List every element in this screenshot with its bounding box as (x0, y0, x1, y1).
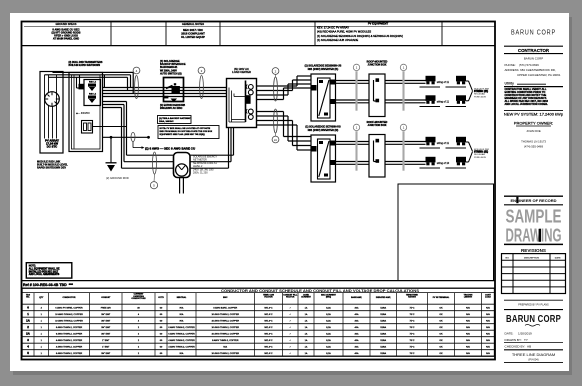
meter tag (150, 152, 157, 189)
svg-text:EGC: EGC (223, 297, 228, 299)
wire array feeder top (45, 72, 134, 93)
svg-text:10 AWG THWN-2, COPPER: 10 AWG THWN-2, COPPER (211, 332, 239, 335)
note box small (158, 116, 192, 124)
wire bundle A (103, 88, 227, 97)
wire dc strings inverter1 (336, 81, 426, 103)
svg-text:PURE 400W: PURE 400W (474, 96, 486, 98)
PV array enclosure (40, 72, 63, 154)
label string group 2 (474, 149, 490, 159)
note box left (26, 263, 72, 278)
load center panel (227, 79, 257, 128)
terminal rsd input (79, 84, 85, 90)
svg-text:FACTOR: FACTOR (264, 296, 273, 299)
svg-text:AUTO SWITCH (S): AUTO SWITCH (S) (160, 73, 182, 76)
wire rsd input (77, 75, 80, 88)
svg-text:52/8A: 52/8A (380, 319, 386, 322)
svg-text:N/A: N/A (486, 345, 490, 348)
svg-text:string of 11: string of 11 (437, 101, 450, 104)
conduit tag 4 (133, 67, 140, 98)
combiner enclosure (69, 73, 103, 152)
wire gec label leader (133, 142, 145, 149)
svg-text:OK: OK (439, 340, 443, 342)
svg-text:ALL EQUIPMENT SHALL BE: ALL EQUIPMENT SHALL BE (29, 268, 60, 271)
svg-text:DATE: DATE (555, 256, 561, 259)
svg-text:REC400AA: REC400AA (474, 93, 485, 96)
svg-text:3/4" EMT: 3/4" EMT (101, 333, 111, 335)
svg-text:W/1.0°C: W/1.0°C (264, 340, 273, 342)
svg-text:DRAWING: DRAWING (506, 226, 562, 246)
svg-text:OK: OK (439, 353, 443, 355)
svg-text:40A: 40A (355, 332, 359, 335)
wire array verticals (45, 75, 57, 139)
ground (106, 163, 117, 172)
svg-text:INSTALLED PER NEC 2017: INSTALLED PER NEC 2017 (29, 270, 59, 273)
svg-text:40A: 40A (355, 326, 359, 329)
svg-text:52/8A: 52/8A (380, 313, 386, 316)
conduit riser 1C (400, 124, 406, 170)
junction box J1 (369, 74, 385, 117)
svg-text:GROUND SPECS: GROUND SPECS (55, 22, 76, 26)
svg-text:Ref # 100-RES-03-4B TBD ***: Ref # 100-RES-03-4B TBD *** (23, 283, 74, 287)
svg-text:N/A: N/A (486, 313, 490, 316)
disconnect S1 (164, 78, 184, 103)
inverter U2 (311, 135, 337, 182)
svg-text:8 AWG THWN-2, COPPER: 8 AWG THWN-2, COPPER (212, 339, 239, 342)
svg-text:N/A: N/A (466, 345, 470, 348)
svg-text:✓: ✓ (289, 345, 291, 348)
PV array symbol (45, 92, 60, 107)
svg-text:W/1.0°C: W/1.0°C (264, 307, 273, 309)
svg-text:NOTE: PV BKR SHALL BE LOCATED: NOTE: PV BKR SHALL BE LOCATED AT OPPOSIT… (160, 127, 211, 130)
svg-text:8,2A: 8,2A (326, 326, 331, 329)
conduit riser 1 (353, 64, 359, 110)
svg-text:N/A: N/A (466, 352, 470, 355)
svg-text:10 AWG THWN-2, COPPER: 10 AWG THWN-2, COPPER (55, 319, 83, 322)
svg-text:6 AWG THWN-2, COPPER: 6 AWG THWN-2, COPPER (56, 352, 83, 355)
svg-text:N/A: N/A (466, 313, 470, 316)
svg-text:LOAD: LOAD (485, 296, 491, 299)
svg-text:MODULES PER: MODULES PER (474, 149, 490, 151)
label module level RSD (37, 161, 68, 170)
svg-text:LOAD CENTER: LOAD CENTER (232, 70, 251, 74)
wire to ground rod (110, 137, 112, 162)
wire bundle C meter to load center (190, 128, 234, 169)
svg-text:BARUN CORP: BARUN CORP (511, 27, 556, 36)
svg-text:10 AWG THWN-2, COPPER: 10 AWG THWN-2, COPPER (211, 352, 239, 355)
dc disconnect (82, 121, 93, 134)
wire GEC (103, 136, 149, 138)
PV string 2 (420, 95, 467, 106)
svg-text:N/A: N/A (486, 339, 490, 342)
svg-text:40A: 40A (355, 339, 359, 342)
svg-text:N/A: N/A (486, 332, 490, 335)
svg-text:◆— 600VDC: ◆— 600VDC (75, 112, 90, 115)
label PV array kW (45, 138, 59, 148)
svg-text:✓: ✓ (289, 319, 291, 322)
svg-text:EQUIPMENT. SEE PLAN. (SEE NEC: EQUIPMENT. SEE PLAN. (SEE NEC 705.12(B)) (160, 133, 205, 136)
svg-text:string of 11: string of 11 (437, 142, 450, 145)
svg-text:NO: NO (506, 257, 510, 259)
wire disc output (93, 126, 127, 128)
svg-text:N/A: N/A (486, 319, 490, 322)
svg-text:UL LISTED EQUIP: UL LISTED EQUIP (181, 35, 205, 39)
wire string merge 2 (466, 142, 473, 162)
conduit riser 1A (400, 64, 406, 110)
svg-text:DC STC: DC STC (47, 145, 57, 149)
svg-text:75°C: 75°C (410, 320, 415, 322)
schedule table (22, 288, 495, 356)
svg-text:N/A: N/A (180, 306, 184, 309)
svg-text:UPPER CHICHESTER, PA 19061: UPPER CHICHESTER, PA 19061 (517, 73, 561, 77)
svg-text:CONTRACTOR: CONTRACTOR (518, 48, 550, 53)
svg-text:8,2A: 8,2A (326, 352, 331, 355)
svg-text:OK: OK (439, 327, 443, 329)
label junction box 2 (367, 121, 388, 127)
svg-text:✓: ✓ (289, 306, 291, 309)
gec tag (131, 132, 135, 141)
svg-text:75°C: 75°C (410, 333, 415, 335)
label inverter 2 (305, 126, 341, 132)
svg-text:✓: ✓ (289, 332, 291, 335)
PV string 3 (420, 137, 467, 148)
svg-text:DESCRIPTION: DESCRIPTION (524, 257, 539, 259)
svg-text:OK: OK (439, 333, 443, 335)
svg-text:CURRENT: CURRENT (301, 297, 312, 299)
node gec end (147, 136, 150, 139)
conduit tag 3 (198, 67, 205, 98)
svg-text:52/8A: 52/8A (380, 352, 386, 355)
svg-text:75°C: 75°C (410, 353, 415, 355)
svg-text:KEY: 17.24 DC PV ARRAY: KEY: 17.24 DC PV ARRAY (317, 26, 349, 30)
utility meter M (174, 153, 191, 178)
svg-text:40A: 40A (355, 313, 359, 316)
svg-text:MODULES PER: MODULES PER (474, 88, 490, 90)
notes area box (398, 184, 494, 281)
svg-text:10 AWG THWN-2, COPPER: 10 AWG THWN-2, COPPER (211, 313, 239, 316)
svg-text:4 AWG THWN-2, COPPER: 4 AWG THWN-2, COPPER (56, 339, 83, 342)
svg-text:REVISIONS: REVISIONS (521, 248, 546, 253)
svg-text:(1) SOLAREDGE HUB UPGRADE: (1) SOLAREDGE HUB UPGRADE (317, 38, 358, 42)
svg-text:75°C: 75°C (410, 307, 415, 309)
svg-text:8,2A: 8,2A (326, 306, 331, 309)
svg-text:QTY: QTY (39, 297, 44, 299)
svg-text:CONDUCTORS: CONDUCTORS (131, 298, 146, 300)
svg-text:W/1.0°C: W/1.0°C (264, 333, 273, 335)
svg-text:CONDUCTOR: CONDUCTOR (63, 297, 77, 299)
svg-text:NEUTRAL: NEUTRAL (177, 296, 187, 299)
note box wide (158, 126, 219, 139)
svg-text:CONDUCTOR AND CONDUIT SCHEDULE: CONDUCTOR AND CONDUIT SCHEDULE AND CONDU… (221, 289, 420, 293)
svg-text:8,2A: 8,2A (326, 313, 331, 316)
busbar (245, 81, 247, 123)
svg-text:RSD 1-2: RSD 1-2 (89, 94, 96, 96)
svg-text:DATE:: DATE: (505, 332, 514, 336)
wire dc strings inverter2 (336, 142, 426, 165)
svg-text:40A: 40A (355, 345, 359, 348)
svg-text:1" EMT: 1" EMT (102, 340, 110, 342)
header band (22, 21, 496, 45)
svg-text:PREPARED BY PV PLANS: PREPARED BY PV PLANS (518, 303, 549, 306)
svg-text:(1) 6 AWG — GEC 8 AWG BARE CU: (1) 6 AWG — GEC 8 AWG BARE CU (145, 147, 195, 151)
svg-text:N/A: N/A (180, 352, 184, 355)
svg-text:N/A: N/A (486, 306, 490, 309)
svg-text:ADDRESS: 684 CHESTERBROOK RD,: ADDRESS: 684 CHESTERBROOK RD, (505, 68, 556, 72)
svg-text:8 AWG BARE, COPPER: 8 AWG BARE, COPPER (213, 306, 237, 309)
title block (502, 27, 566, 362)
svg-text:10 AWG THWN-2, COPPER: 10 AWG THWN-2, COPPER (211, 319, 239, 322)
label string group 1 (474, 88, 490, 98)
svg-text:200A, CL 200: 200A, CL 200 (193, 172, 208, 175)
svg-text:R01 (240V) INVERTER (I2): R01 (240V) INVERTER (I2) (308, 129, 339, 132)
svg-text:10 AWG THWN-2, COPPER: 10 AWG THWN-2, COPPER (211, 326, 239, 329)
svg-text:N/A: N/A (223, 345, 227, 348)
svg-text:8,2A: 8,2A (326, 345, 331, 348)
svg-text:NEW PV SYSTEM: 17.2400 kWp: NEW PV SYSTEM: 17.2400 kWp (504, 111, 564, 116)
svg-text:1" EMT: 1" EMT (102, 346, 110, 348)
svg-text:PHONE:: PHONE: (505, 63, 516, 67)
svg-text:CCTD: CCTD (158, 297, 164, 299)
svg-text:NOTE:: NOTE: (29, 266, 36, 268)
label load center (232, 67, 251, 74)
svg-text:RSD 1-1: RSD 1-1 (89, 82, 96, 84)
node gec tap (110, 136, 113, 139)
svg-text:Utility: Utility (505, 82, 515, 86)
svg-text:TY: TY (524, 338, 528, 342)
svg-text:75°C: 75°C (410, 346, 415, 348)
svg-text:DRAWN BY:: DRAWN BY: (505, 338, 522, 342)
svg-text:DERATED AMP,: DERATED AMP, (376, 296, 391, 299)
svg-text:CONDUIT: CONDUIT (101, 297, 111, 299)
svg-text:(571) 570-6639: (571) 570-6639 (519, 63, 539, 67)
svg-text:40A: 40A (355, 319, 359, 322)
wire bundle B combiner to meter (103, 102, 174, 169)
svg-text:3/4" EMT: 3/4" EMT (101, 314, 111, 316)
svg-text:BASE AMP,: BASE AMP, (351, 296, 362, 299)
svg-text:(W/A): (W/A) (326, 296, 332, 299)
svg-text:10 AWG THWN-2, COPPER: 10 AWG THWN-2, COPPER (55, 313, 83, 316)
svg-text:(2) DUAL RSD TRANSMITTERS: (2) DUAL RSD TRANSMITTERS (69, 61, 103, 64)
svg-text:52/8A: 52/8A (380, 332, 386, 335)
svg-text:✓: ✓ (289, 326, 291, 329)
svg-text:STRING: (11): STRING: (11) (474, 152, 488, 154)
svg-text:3/4" EMT: 3/4" EMT (101, 327, 111, 329)
svg-text:JUNCTION BOX: JUNCTION BOX (368, 64, 387, 67)
svg-text:N/A: N/A (466, 339, 470, 342)
svg-text:N/A: N/A (486, 326, 490, 329)
svg-text:GENERAL NOTES: GENERAL NOTES (182, 22, 205, 26)
svg-text:AT MAIN PANEL GND: AT MAIN PANEL GND (53, 36, 79, 40)
svg-text:JOHN DOE: JOHN DOE (526, 129, 541, 133)
svg-text:W/1.0°C: W/1.0°C (264, 353, 273, 355)
svg-text:CHECKED BY:: CHECKED BY: (505, 345, 526, 349)
conduit tag 2 (272, 68, 279, 101)
svg-text:PV W/ TERMINAL: PV W/ TERMINAL (433, 296, 450, 299)
svg-text:200A/240V AC DISC: 200A/240V AC DISC (160, 107, 183, 110)
svg-text:52/8A: 52/8A (380, 345, 386, 348)
svg-text:200A, 240VAC: 200A, 240VAC (159, 120, 174, 123)
svg-text:2A: 2A (274, 139, 277, 142)
svg-text:3/4" EMT: 3/4" EMT (101, 320, 111, 322)
conduit tag 2A (272, 109, 279, 143)
svg-text:STRING: (11): STRING: (11) (474, 91, 488, 93)
svg-text:✓: ✓ (289, 339, 291, 342)
svg-text:52/8A: 52/8A (380, 326, 386, 329)
svg-text:75°C: 75°C (410, 340, 415, 342)
svg-text:6 AWG PV WIRE, COPPER: 6 AWG PV WIRE, COPPER (55, 306, 83, 309)
svg-text:6 AWG THWN-2, COPPER: 6 AWG THWN-2, COPPER (56, 332, 83, 335)
svg-text:✓: ✓ (289, 352, 291, 355)
svg-text:OK: OK (439, 307, 443, 309)
svg-text:(1) SOLAREDGE SE10000H-US R01(: (1) SOLAREDGE SE10000H-US R01(240V) & SE… (317, 34, 403, 38)
label inverter 1 (305, 65, 342, 71)
PV string 1 (420, 76, 467, 87)
label utility meter (193, 156, 217, 175)
svg-text:3/4" EMT: 3/4" EMT (101, 353, 111, 355)
svg-text:40A: 40A (355, 352, 359, 355)
svg-text:N/A: N/A (466, 306, 470, 309)
border frame (22, 22, 496, 360)
svg-text:string of 11: string of 11 (437, 81, 450, 84)
svg-text:1/20/2019: 1/20/2019 (518, 332, 532, 336)
label below disconnect (160, 104, 185, 110)
svg-text:6 AWG THWN-2, COPPER: 6 AWG THWN-2, COPPER (168, 332, 195, 335)
svg-text:JUNCTION BOX: JUNCTION BOX (368, 124, 387, 127)
svg-text:6 AWG THWN-2, COPPER: 6 AWG THWN-2, COPPER (56, 326, 83, 329)
fuse F2 (88, 96, 96, 104)
svg-text:R01 (240V) INVERTER (I1): R01 (240V) INVERTER (I1) (308, 68, 339, 71)
breaker CB2 (246, 109, 253, 119)
svg-text:W/1.0°C: W/1.0°C (264, 314, 273, 316)
svg-text:W/1.0°C: W/1.0°C (264, 327, 273, 329)
svg-text:N/A: N/A (180, 319, 184, 322)
svg-text:N/A: N/A (466, 319, 470, 322)
svg-text:4 AWG THWN-2, COPPER: 4 AWG THWN-2, COPPER (168, 339, 195, 342)
svg-text:OK: OK (439, 320, 443, 322)
inverter U1 (311, 74, 337, 121)
svg-text:8,2A: 8,2A (326, 332, 331, 335)
wire lc hookup (229, 88, 246, 123)
svg-text:BARUN CORP: BARUN CORP (524, 56, 543, 60)
svg-text:LENGTH: LENGTH (464, 297, 473, 299)
svg-text:4 AWG THWN-2, COPPER: 4 AWG THWN-2, COPPER (168, 345, 195, 348)
PV string 4 (420, 157, 467, 168)
wire string merge 1 (466, 81, 473, 101)
svg-text:52/8A: 52/8A (380, 306, 386, 309)
RSD box (84, 80, 101, 106)
svg-text:(N) 120V AC: (N) 120V AC (234, 67, 249, 71)
svg-text:PROPERTY OWNER:: PROPERTY OWNER: (514, 121, 553, 126)
junction box J2 (369, 135, 385, 178)
svg-text:(43) REC400AA PURE, 400W PV MO: (43) REC400AA PURE, 400W PV MODULES (317, 30, 371, 34)
label above combiner (69, 61, 103, 67)
svg-text:AND LOCAL JURISDICTION CODES.: AND LOCAL JURISDICTION CODES. (505, 103, 549, 106)
svg-text:(474) 555-0469: (474) 555-0469 (524, 145, 544, 149)
svg-text:W/1.0°C: W/1.0°C (264, 346, 273, 348)
svg-text:END FROM MAIN. DO NOT RELOCATE: END FROM MAIN. DO NOT RELOCATE THE JCN B… (160, 130, 213, 133)
svg-text:N/A: N/A (466, 326, 470, 329)
svg-text:75°C: 75°C (410, 314, 415, 316)
svg-text:RAPID SHUTDOWN DEV: RAPID SHUTDOWN DEV (37, 167, 66, 170)
label backup interface (160, 60, 186, 76)
wire bundle D lc to inverter1 (257, 76, 312, 100)
label junction box 1 (367, 61, 388, 67)
svg-text:FACTOR: FACTOR (286, 296, 295, 299)
svg-text:75°C: 75°C (410, 327, 415, 329)
svg-text:✓: ✓ (289, 313, 291, 316)
svg-text:AND LOCAL AMENDMENTS: AND LOCAL AMENDMENTS (29, 273, 60, 276)
svg-text:8,2A: 8,2A (326, 339, 331, 342)
svg-text:RATING: RATING (408, 296, 416, 299)
svg-text:PV EQUIPMENT: PV EQUIPMENT (368, 21, 389, 25)
fuse F1 (88, 84, 96, 92)
svg-text:40A: 40A (355, 306, 359, 309)
svg-text:4 AWG THWN-2, COPPER: 4 AWG THWN-2, COPPER (56, 345, 83, 348)
svg-text:FREE AIR: FREE AIR (101, 306, 111, 309)
wire service drop (180, 178, 184, 194)
svg-text:N/A: N/A (180, 313, 184, 316)
svg-text:BUILT-IN RAPID SHUTDOWN: BUILT-IN RAPID SHUTDOWN (69, 64, 101, 67)
svg-text:6 AWG THWN-2, COPPER: 6 AWG THWN-2, COPPER (168, 326, 195, 329)
svg-text:NO.: NO. (26, 297, 30, 299)
svg-text:OK: OK (439, 346, 443, 348)
breaker CB1 (246, 85, 253, 95)
svg-text:SAMPLE: SAMPLE (506, 207, 562, 227)
svg-text:8,2A: 8,2A (326, 319, 331, 322)
neutral lug (245, 95, 250, 104)
svg-text:52/8A: 52/8A (380, 339, 386, 342)
svg-text:N/A: N/A (486, 352, 490, 355)
svg-text:(1) TESLA BACKUP GATEWAY: (1) TESLA BACKUP GATEWAY (159, 117, 191, 120)
svg-text:OK: OK (439, 314, 443, 316)
svg-text:(2) GROUND ROD: (2) GROUND ROD (106, 176, 129, 180)
svg-text:THOMAS LN 19173: THOMAS LN 19173 (521, 140, 546, 144)
separator line (22, 280, 496, 282)
svg-text:THREE LINE DIAGRAM: THREE LINE DIAGRAM (512, 352, 555, 357)
svg-text:string of 10: string of 10 (437, 162, 450, 165)
svg-text:PURE 400W: PURE 400W (474, 157, 486, 159)
svg-text:BARUN CORP: BARUN CORP (506, 314, 561, 325)
wire bundle E lc to inverter2 (257, 112, 312, 151)
svg-text:W/1.0°C: W/1.0°C (264, 320, 273, 322)
svg-text:N/A: N/A (466, 332, 470, 335)
svg-text:AB: AB (527, 345, 531, 349)
svg-text:REC400AA: REC400AA (474, 153, 485, 156)
conduit riser 1B (353, 124, 359, 170)
svg-text:(PV-004): (PV-004) (528, 357, 538, 361)
